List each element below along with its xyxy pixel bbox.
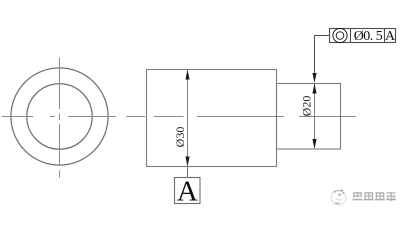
horizontal centerline through both views [2,116,356,118]
arrowhead top of Ø30 dimension [185,70,189,80]
datum A box [175,178,201,204]
dimension line Ø20 [314,84,316,148]
tolerance leader horizontal segment [315,35,330,37]
svg-text:Ø0. 5: Ø0. 5 [354,29,383,44]
frame divider 2 [384,29,386,43]
datum leader line from dimension to datum box [187,167,189,178]
concentricity symbol inner circle [336,32,344,40]
arrowhead bottom of Ø20 dimension [312,139,316,149]
arrowhead bottom of Ø30 dimension [185,157,189,167]
concentricity symbol outer circle [333,28,347,42]
side view small rectangle (Ø20 section) [277,84,341,150]
vertical centerline of front view [59,58,61,178]
watermark logo specks [334,190,345,204]
svg-text:A: A [177,175,198,207]
feature control frame outline [330,29,396,43]
arrowhead top of Ø20 dimension [312,84,316,94]
tolerance leader vertical segment [314,36,316,76]
side view large rectangle (Ø30 section) [147,70,277,167]
watermark logo circle [331,190,346,205]
svg-text:Ø20: Ø20 [300,96,314,117]
front view inner circle (Ø20) [27,84,92,149]
front view outer circle (Ø30) [11,68,108,165]
watermark text 思瑞服务 drawn as vector strokes [353,192,396,201]
tolerance leader arrowhead [312,73,316,83]
svg-text:A: A [385,29,396,44]
svg-text:Ø30: Ø30 [173,127,187,148]
frame divider 1 [350,29,352,43]
dimension line Ø30 [187,71,189,166]
